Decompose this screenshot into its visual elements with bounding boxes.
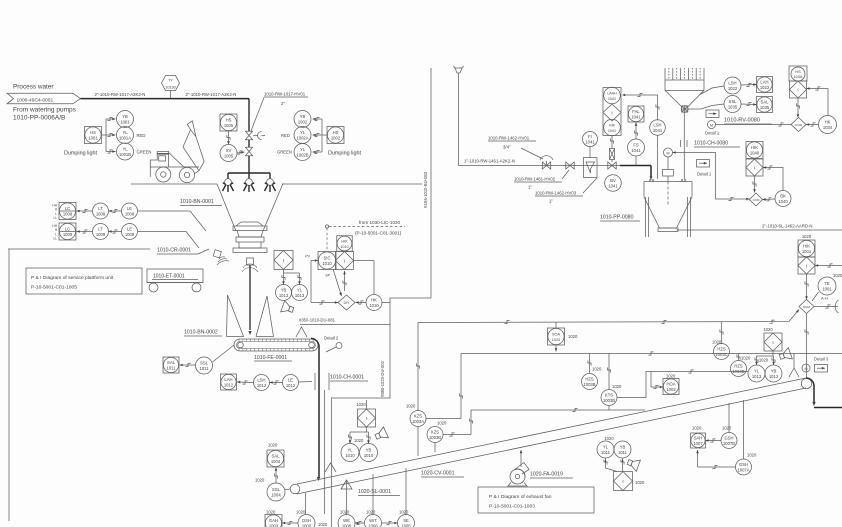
instrument alarm diamond 1011 <box>614 472 645 491</box>
svg-text:CCM: CCM <box>753 198 760 202</box>
wire DIY to HK <box>356 301 367 304</box>
svg-text:1007B: 1007B <box>723 441 735 446</box>
instrument alarm diamond 1010b <box>356 400 375 427</box>
svg-text:1002B: 1002B <box>296 152 308 157</box>
svg-text:1010-BN-0002: 1010-BN-0002 <box>184 330 218 336</box>
svg-text:1012: 1012 <box>286 383 296 388</box>
node detail 2 flag <box>324 336 342 353</box>
svg-text:I: I <box>366 416 367 421</box>
svg-text:I: I <box>772 340 773 345</box>
wire LE-LT-LC row2 <box>77 230 122 233</box>
label 1020-SL-0001 <box>358 489 400 496</box>
wire line y=410 <box>471 408 645 411</box>
wire LSH1041 to LAHH1041 <box>622 93 659 120</box>
wire M to CCW diamond <box>716 123 792 126</box>
svg-text:1020: 1020 <box>712 340 722 345</box>
svg-text:1020: 1020 <box>266 510 276 515</box>
svg-text:1010: 1010 <box>345 453 355 458</box>
svg-text:1010: 1010 <box>322 261 332 266</box>
svg-text:1020: 1020 <box>568 334 578 339</box>
svg-text:1007: 1007 <box>693 441 703 446</box>
instrument DCM diamond conveyor <box>799 300 814 314</box>
node ground line left <box>131 183 217 185</box>
instrument LSH 1041 <box>650 120 666 136</box>
wire HS1001 to lamp group <box>102 117 116 153</box>
svg-text:1002: 1002 <box>331 135 341 140</box>
instrument SSL 1035 <box>724 96 741 113</box>
svg-text:1041: 1041 <box>608 97 616 101</box>
svg-text:1002A: 1002A <box>296 135 308 140</box>
svg-text:1020: 1020 <box>741 356 751 361</box>
label 1010-RW-1462-HV03 <box>535 178 597 204</box>
instrument HK 1010 <box>366 295 382 311</box>
node duct support <box>296 327 307 337</box>
label 1010-PP-0080 <box>600 215 640 222</box>
svg-text:1012: 1012 <box>257 383 267 388</box>
svg-text:PV: PV <box>305 255 310 259</box>
instrument LT 1008 <box>93 203 109 219</box>
equipment sight glass <box>584 158 598 178</box>
label 1020-FA-0019 <box>530 472 573 479</box>
wire HIK1041 drop with flame arrestor <box>610 136 615 162</box>
instrument SAH 1007 <box>691 426 706 449</box>
svg-text:1034: 1034 <box>823 125 833 130</box>
instrument HK 1034 <box>819 116 837 134</box>
instrument HIK 1041 <box>604 119 621 136</box>
svg-text:1010-RW-1017-HV01: 1010-RW-1017-HV01 <box>264 92 306 97</box>
svg-text:1020: 1020 <box>356 402 366 407</box>
svg-text:1010-ET-0001: 1010-ET-0001 <box>153 274 185 280</box>
label 1010-BN-0002 <box>184 330 222 337</box>
svg-text:1020-CV-0001: 1020-CV-0001 <box>421 471 455 477</box>
instrument YB 1012 <box>765 365 782 382</box>
wire spray manifold <box>228 173 270 179</box>
svg-text:1008: 1008 <box>63 211 73 216</box>
svg-text:1041: 1041 <box>585 139 595 144</box>
svg-text:1009: 1009 <box>63 232 73 237</box>
wire LE-LT-LC row1 <box>77 209 122 212</box>
instrument WIT 1006 <box>365 510 382 527</box>
wire SSL1011 to SAL1011 <box>180 345 235 367</box>
wire alarm to lamps 1013 <box>282 270 301 285</box>
svg-text:1011: 1011 <box>166 365 176 370</box>
wire silo M signal <box>673 151 750 200</box>
svg-text:1020: 1020 <box>340 510 350 515</box>
svg-text:1": 1" <box>528 185 532 190</box>
svg-text:From watering pumps: From watering pumps <box>13 107 77 114</box>
svg-text:1012: 1012 <box>769 374 779 379</box>
instrument SAL 1004 <box>267 443 284 468</box>
wire thick water line to silo <box>620 166 653 181</box>
instrument YL 1002A <box>294 127 311 144</box>
svg-text:1011: 1011 <box>618 450 628 455</box>
label RED / GREEN / Dumping light right group <box>277 133 361 157</box>
svg-text:I: I <box>611 110 612 115</box>
label 1010-BN-0001 <box>180 199 222 206</box>
label PV SP <box>305 255 330 278</box>
svg-text:1010-RW-1462-HV03: 1010-RW-1462-HV03 <box>535 191 577 196</box>
svg-text:1010-CH-0001: 1010-CH-0001 <box>330 375 364 381</box>
svg-text:1013: 1013 <box>295 293 305 298</box>
svg-text:1020: 1020 <box>437 421 447 426</box>
svg-text:1013: 1013 <box>279 293 289 298</box>
svg-text:1010-CR-0001: 1010-CR-0001 <box>157 248 191 254</box>
instrument HS 1005 <box>220 114 237 131</box>
svg-text:CCW: CCW <box>795 123 802 127</box>
valve XV spray solenoid <box>245 147 252 155</box>
svg-text:1020: 1020 <box>747 453 757 458</box>
svg-text:1011: 1011 <box>601 450 611 455</box>
instrument LAHH 1041 stack <box>603 87 621 135</box>
svg-text:1041: 1041 <box>608 129 616 133</box>
svg-text:1003B: 1003B <box>583 382 595 387</box>
wire 1012 group connections <box>755 351 775 365</box>
node detail box RV <box>706 110 719 118</box>
alarm horn 1010 <box>373 427 388 443</box>
svg-text:1005: 1005 <box>401 523 411 527</box>
node detail box CH <box>697 160 712 177</box>
wire feeder discharge chute <box>311 339 320 482</box>
svg-text:HIK: HIK <box>341 240 348 244</box>
svg-text:LL: LL <box>53 216 57 220</box>
instrument TY 10130 hexagon <box>162 76 180 99</box>
valve control HV01 with positioner <box>540 156 553 169</box>
wire HOA input <box>651 372 663 389</box>
svg-text:#880-1020-DU-002: #880-1020-DU-002 <box>380 360 385 397</box>
wire duct 880 path <box>332 325 391 466</box>
instrument BK 1040 <box>775 191 791 207</box>
svg-text:1006: 1006 <box>368 523 378 527</box>
svg-text:1007A: 1007A <box>737 467 749 472</box>
svg-text:1001A: 1001A <box>119 135 131 140</box>
alarm horn 1013 <box>281 301 295 316</box>
label 1010-RW-1462-HV01 <box>488 136 543 160</box>
spray nozzle middle <box>244 179 255 192</box>
svg-text:Dumping light: Dumping light <box>328 151 361 157</box>
alarm horn 1011 <box>626 456 640 471</box>
instrument YL 1002B <box>294 144 311 161</box>
svg-text:DIY: DIY <box>344 301 350 305</box>
svg-text:1003: 1003 <box>302 523 312 527</box>
instrument HS 1001 <box>85 127 102 144</box>
svg-text:I: I <box>344 258 345 263</box>
equipment bin 1010-BN-0002 walls <box>227 295 274 337</box>
svg-text:1010-FE-0001: 1010-FE-0001 <box>254 355 287 361</box>
svg-text:Detail 3: Detail 3 <box>814 357 829 362</box>
instrument M motor RV <box>705 121 720 136</box>
wire 103A loop <box>796 87 828 118</box>
wire HZS connections <box>720 322 740 361</box>
instrument LE 1009 <box>122 224 138 240</box>
alarm horn 1012 <box>778 348 792 363</box>
wire LSH to LAH 1022 <box>700 83 757 94</box>
svg-text:1041: 1041 <box>631 114 641 119</box>
instrument LAH 1012 <box>221 374 237 390</box>
instrument YL 1013 <box>292 285 308 301</box>
svg-text:Process water: Process water <box>13 84 54 91</box>
wire BK to CCM <box>763 198 776 201</box>
instrument KTS 1003B <box>601 354 622 411</box>
svg-text:1010-RV-0080: 1010-RV-0080 <box>724 118 760 124</box>
svg-text:1022: 1022 <box>760 85 770 90</box>
svg-text:1020: 1020 <box>763 327 773 332</box>
wire diamond input from right <box>815 264 842 267</box>
svg-text:I: I <box>622 479 623 484</box>
instrument alarm diamond 103A <box>790 81 807 98</box>
label RED / GREEN / Dumping light left group <box>64 133 151 157</box>
instrument HIK 1010 top <box>337 236 353 252</box>
svg-text:1020: 1020 <box>722 426 732 431</box>
svg-text:1009: 1009 <box>96 232 106 237</box>
svg-text:M: M <box>667 151 670 155</box>
label 1020-CV-0001 <box>421 471 464 478</box>
instrument alarm diamond I 1010 <box>336 252 354 270</box>
svg-text:2"-1010-RW-1017-A2K2-N: 2"-1010-RW-1017-A2K2-N <box>186 92 237 97</box>
svg-text:HIK: HIK <box>609 124 616 128</box>
svg-text:LL: LL <box>53 237 57 241</box>
instrument alarm diamond 1001 <box>798 257 815 274</box>
svg-text:DCM: DCM <box>803 305 810 309</box>
equipment dump truck <box>150 121 204 183</box>
node process-water inlet flag 1000-49C4-0001 <box>7 84 81 122</box>
label 1010-CH-0001 <box>330 375 368 382</box>
wire SSL to SAL 1035 <box>688 102 756 109</box>
wire LE1009 probe line <box>138 232 199 249</box>
equipment belt feeder 1010-FE-0001 <box>234 339 318 351</box>
svg-text:1003B: 1003B <box>603 398 615 403</box>
svg-text:1008: 1008 <box>125 211 135 216</box>
instrument KZS 1003B3 <box>608 396 610 398</box>
node conveyor support v <box>325 463 336 472</box>
svg-text:1010: 1010 <box>340 245 348 249</box>
wire 1011 group connections <box>604 458 624 472</box>
instrument YB 1010 <box>360 444 378 462</box>
instrument SSL 1004 <box>255 478 285 502</box>
svg-text:10130: 10130 <box>165 86 176 90</box>
svg-text:HS: HS <box>795 70 801 74</box>
svg-text:1020: 1020 <box>268 443 278 448</box>
label 1010-RW-1017-HV01 <box>251 92 308 132</box>
svg-text:GREEN: GREEN <box>137 150 152 155</box>
instrument M motor conveyor <box>802 364 810 372</box>
wire SIC connections <box>311 259 374 304</box>
instrument alarm diamond 1040 <box>746 159 763 176</box>
wire 1040 loop <box>753 166 783 193</box>
wire FS to FAL <box>634 123 637 166</box>
svg-text:Detail 1: Detail 1 <box>705 131 720 136</box>
svg-text:1020-FA-0019: 1020-FA-0019 <box>530 472 563 478</box>
instrument M motor silo <box>663 148 674 182</box>
node conveyor head support <box>789 354 799 378</box>
svg-text:#350-1010-DU-081: #350-1010-DU-081 <box>299 318 336 323</box>
svg-text:1020: 1020 <box>354 438 364 443</box>
svg-text:SP: SP <box>325 274 330 278</box>
wire duct 456 vertical <box>430 68 432 298</box>
instrument SAL 1011 <box>163 357 179 373</box>
instrument YL 1001A <box>117 127 134 144</box>
svg-text:2"-1010-RW-1017-A2K2-N: 2"-1010-RW-1017-A2K2-N <box>95 92 146 97</box>
svg-text:LAHH: LAHH <box>607 92 617 96</box>
svg-text:#4S6-1010-BU-083: #4S6-1010-BU-083 <box>423 171 428 208</box>
svg-text:1041: 1041 <box>631 148 641 153</box>
instrument YB 1013 <box>276 285 292 301</box>
wire vertical to M3 <box>805 314 808 380</box>
wire HK to CCW <box>806 123 819 126</box>
valve HV02 <box>566 162 574 169</box>
instrument alarm diamond 1041 <box>603 104 621 121</box>
svg-text:1010-RW-1461-HV02: 1010-RW-1461-HV02 <box>514 177 556 182</box>
label 1010-RW-1461-HV02 <box>514 170 569 190</box>
equipment trolley 1010-ET-0001 <box>147 269 203 292</box>
svg-text:1005: 1005 <box>224 153 234 158</box>
wire spray header drop <box>248 99 250 173</box>
node vent cap <box>454 66 464 77</box>
wire crusher flex joint and feed drop <box>242 258 258 335</box>
svg-text:1004: 1004 <box>271 492 281 497</box>
svg-text:1003C: 1003C <box>715 352 727 357</box>
svg-text:M: M <box>805 367 808 371</box>
svg-text:RED: RED <box>281 133 290 138</box>
label P&I Diagram of service platform unit box <box>26 268 142 294</box>
svg-text:3/4": 3/4" <box>503 145 511 150</box>
svg-text:103A: 103A <box>794 75 803 79</box>
node detail 3 <box>814 357 829 373</box>
wire GSH connections <box>696 400 743 469</box>
svg-text:1010: 1010 <box>364 453 374 458</box>
wire FI to sight glass <box>589 147 591 158</box>
instrument SSL 1011 <box>196 357 213 374</box>
svg-text:1001: 1001 <box>88 135 98 140</box>
svg-text:1020: 1020 <box>635 480 645 485</box>
instrument GSH 1007A <box>736 453 757 476</box>
svg-text:1020: 1020 <box>552 338 560 342</box>
svg-text:RED: RED <box>137 133 146 138</box>
svg-text:1"-1010-RW-1461-A2K2-N: 1"-1010-RW-1461-A2K2-N <box>464 159 515 164</box>
instrument KZS 1003A <box>406 404 426 427</box>
instrument YL 1011 <box>597 436 614 458</box>
svg-text:P-10-5001-C01-1003: P-10-5001-C01-1003 <box>489 504 535 510</box>
svg-text:1003A: 1003A <box>412 419 424 424</box>
equipment conveyor 1020-CV-0001 belt <box>290 378 812 494</box>
svg-text:1003: 1003 <box>269 523 279 527</box>
label HH H L LL row2 <box>52 224 57 241</box>
svg-text:1001: 1001 <box>802 249 812 254</box>
wire filter discharge duct <box>681 112 688 179</box>
label 1010-FE-0001 <box>254 355 292 361</box>
wire SSL to SAL <box>274 468 290 490</box>
svg-text:Detail 1: Detail 1 <box>697 172 712 177</box>
label 2"-1010-SL-1462-AARD-N <box>762 224 812 229</box>
wire diamond to lamps 1010 <box>348 427 370 444</box>
svg-text:1040: 1040 <box>778 199 788 204</box>
svg-text:1010: 1010 <box>369 303 379 308</box>
svg-text:1020: 1020 <box>255 478 265 483</box>
wire fan suction arrow <box>520 450 522 467</box>
instrument DSH 1003 <box>296 510 315 527</box>
wire bottom connections <box>282 390 406 527</box>
wire main water line 2"-1010-RW-1017-A2K2-N <box>81 98 250 100</box>
instrument GSH 1007B <box>721 426 737 449</box>
label 1010-CH-0080 <box>694 141 740 148</box>
svg-text:1020: 1020 <box>399 510 409 515</box>
instrument CCM diamond silo <box>750 193 763 206</box>
svg-text:1020: 1020 <box>366 510 376 515</box>
svg-text:1020: 1020 <box>406 404 416 409</box>
instrument LAH 1022 <box>757 77 773 93</box>
valve HV01 with actuator <box>245 131 265 139</box>
instrument HIK 1001 <box>798 240 815 257</box>
svg-text:1010-BN-0001: 1010-BN-0001 <box>180 199 214 205</box>
svg-text:P-10-5001-C01-1005: P-10-5001-C01-1005 <box>31 285 77 291</box>
label HH H L LL row1 <box>52 204 57 221</box>
instrument FAL 1041 <box>628 106 644 122</box>
svg-text:1012: 1012 <box>224 382 234 387</box>
svg-text:1010-PP-0006A/B: 1010-PP-0006A/B <box>13 115 65 122</box>
instrument LSH 1012 <box>254 375 270 391</box>
svg-text:M: M <box>710 123 713 127</box>
svg-text:2": 2" <box>281 101 285 106</box>
wire main interlock line <box>418 310 799 324</box>
instrument GAH 1003 <box>265 510 282 527</box>
wire TE to DCM <box>812 292 819 301</box>
wire dashed setpoint line <box>325 225 405 251</box>
instrument YB 1002 <box>294 111 311 128</box>
svg-text:1041: 1041 <box>653 128 663 133</box>
wire HK to duct line <box>382 302 390 304</box>
svg-text:1020: 1020 <box>592 367 602 372</box>
svg-text:I: I <box>283 258 284 263</box>
wire platform boundary vertical <box>8 249 10 521</box>
svg-text:1006: 1006 <box>342 523 352 527</box>
svg-text:Detail 2: Detail 2 <box>324 336 339 341</box>
wire KTS-B chain right <box>617 370 748 398</box>
instrument BV 1041 <box>605 175 622 192</box>
equipment silo 1010-PP-0080 <box>644 179 692 237</box>
instrument HZS 1003D <box>731 356 751 377</box>
instrument SE 1005 <box>398 510 415 527</box>
wire duct connector <box>300 298 431 325</box>
instrument HZS 1003C <box>712 340 730 360</box>
svg-text:1020: 1020 <box>318 522 328 527</box>
instrument YB 1001 <box>117 111 134 128</box>
svg-text:A-H: A-H <box>821 296 828 301</box>
instrument YL 1001B <box>117 143 134 160</box>
spray nozzle right <box>265 179 276 192</box>
instrument alarm diamond 1012 <box>763 327 782 351</box>
instrument YB 1011 <box>614 441 631 458</box>
label from 1030-LIC-1020 <box>355 220 402 236</box>
svg-text:1010-CH-0080: 1010-CH-0080 <box>694 141 728 147</box>
wire vent drop <box>458 77 460 166</box>
svg-text:2"-1010-SL-1462-AARD-N: 2"-1010-SL-1462-AARD-N <box>762 224 812 229</box>
instrument SIC 1010 <box>318 252 336 270</box>
svg-text:(P-10-5001-C01-3001): (P-10-5001-C01-3001) <box>355 231 402 236</box>
instrument XV 1005 <box>220 145 237 162</box>
svg-text:1004: 1004 <box>271 459 281 464</box>
instrument LC 1009 <box>59 223 76 240</box>
label 1010-CR-0001 <box>8 248 209 255</box>
equipment bag filter 1010-CH-0080 <box>665 68 704 107</box>
label 1010-RV-0080 <box>724 118 772 125</box>
equipment bin 1010-BN-0001 pit walls <box>217 184 283 232</box>
wire DCM output right <box>814 305 838 308</box>
valve HV03 <box>608 162 616 169</box>
instrument YL 1010 <box>341 444 359 462</box>
instrument SOA 1003 <box>548 323 578 352</box>
svg-text:1011: 1011 <box>199 366 209 371</box>
wire top left duct start <box>430 67 432 70</box>
svg-text:1010-RW-1462-HV01: 1010-RW-1462-HV01 <box>488 136 530 141</box>
